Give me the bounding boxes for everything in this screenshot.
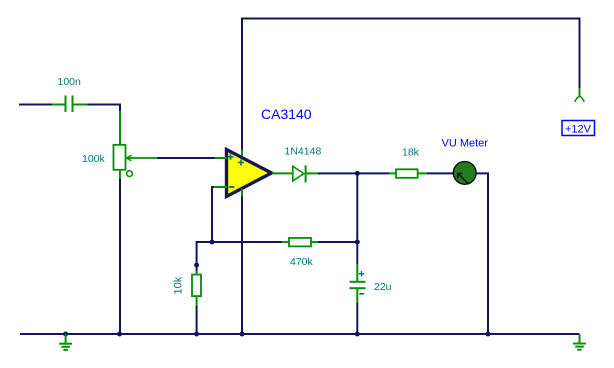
junction dot rail op-amp supply xyxy=(240,332,245,337)
junction dot rail 22u xyxy=(355,332,360,337)
label box +12V xyxy=(562,121,595,136)
op-amp pin stub - input xyxy=(214,186,228,188)
ground symbol left xyxy=(59,334,72,350)
resistor R2 18k xyxy=(389,169,428,178)
diode D1 1N4148 xyxy=(293,165,319,182)
ground symbol right xyxy=(573,334,586,350)
wire meter to down right xyxy=(476,173,489,334)
wire inverting input run xyxy=(212,187,214,242)
wire node A down to feedback node xyxy=(356,173,358,242)
resistor R3 470k xyxy=(282,238,320,247)
wire pot to ground rail xyxy=(119,179,121,334)
wire 18k to meter xyxy=(427,172,454,174)
svg-text:18k: 18k xyxy=(402,147,420,159)
wire feedback corner down to 10k xyxy=(196,241,198,265)
wire pot bottom lead xyxy=(119,170,121,181)
capacitor C2 22u electrolytic xyxy=(350,264,366,304)
potentiometer VR1 100k xyxy=(114,145,158,177)
svg-text:+12V: +12V xyxy=(565,124,592,136)
op-amp pin stub + input xyxy=(215,157,228,159)
wire top rail to +12V xyxy=(241,19,580,90)
feedback node junction right xyxy=(355,240,360,245)
wire capacitor left lead xyxy=(52,104,65,106)
op-amp pin stub V- bottom xyxy=(241,189,243,197)
junction dot at inverting node xyxy=(210,240,215,245)
op-amp input polarity marks xyxy=(228,154,245,187)
resistor R1 10k xyxy=(192,271,201,307)
wire 10k top lead xyxy=(196,265,198,275)
op-amp output lead xyxy=(272,172,293,174)
wire op-amp supply vertical xyxy=(241,19,243,335)
junction dot rail 10k xyxy=(194,332,199,337)
wire terminal stem green xyxy=(579,88,581,97)
svg-text:22u: 22u xyxy=(374,281,392,293)
svg-text:100k: 100k xyxy=(82,153,106,165)
wire capacitor to corner down to pot xyxy=(88,105,121,113)
junction dot rail meter xyxy=(486,332,491,337)
capacitor C1 100n xyxy=(66,96,89,113)
op-amp U1 CA3140 xyxy=(227,150,272,197)
svg-text:CA3140: CA3140 xyxy=(261,106,312,122)
terminal +12V fork symbol xyxy=(575,97,585,102)
op-amp pin stub V+ top xyxy=(241,150,243,157)
svg-text:470k: 470k xyxy=(290,256,314,268)
wire diode to node A xyxy=(318,172,358,174)
junction dot 10k top xyxy=(194,263,199,268)
wire 10k bottom to rail xyxy=(196,306,198,334)
junction dot rail ground left xyxy=(63,332,68,337)
wire feedback horizontal xyxy=(197,241,282,243)
svg-text:100n: 100n xyxy=(58,76,82,88)
wire 22u bottom to rail xyxy=(356,303,358,334)
wire 470k right to feedback node xyxy=(319,241,358,243)
wire node A to 18k xyxy=(357,172,389,174)
meter M1 VU Meter xyxy=(453,162,476,185)
svg-text:10k: 10k xyxy=(173,276,185,294)
wire pot top lead xyxy=(119,111,121,145)
wire 22u top lead xyxy=(356,242,358,265)
bottom ground rail xyxy=(20,333,580,335)
wire input line left xyxy=(19,104,52,106)
wire wiper to op-amp + input xyxy=(157,157,215,159)
node A junction xyxy=(355,171,360,176)
junction dot rail pot xyxy=(117,332,122,337)
svg-text:1N4148: 1N4148 xyxy=(285,146,322,158)
svg-text:VU Meter: VU Meter xyxy=(442,138,489,150)
